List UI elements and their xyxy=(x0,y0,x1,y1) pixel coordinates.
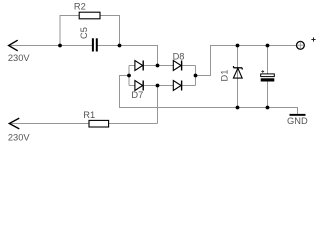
svg-text:D8: D8 xyxy=(173,51,185,61)
svg-text:R1: R1 xyxy=(83,110,95,120)
svg-text:C5: C5 xyxy=(79,27,89,39)
svg-text:230V: 230V xyxy=(8,133,31,143)
svg-text:R2: R2 xyxy=(74,1,86,11)
svg-text:GND: GND xyxy=(287,116,308,126)
svg-text:D1: D1 xyxy=(220,70,230,82)
svg-text:230V: 230V xyxy=(8,53,31,63)
svg-text:D7: D7 xyxy=(131,90,143,100)
